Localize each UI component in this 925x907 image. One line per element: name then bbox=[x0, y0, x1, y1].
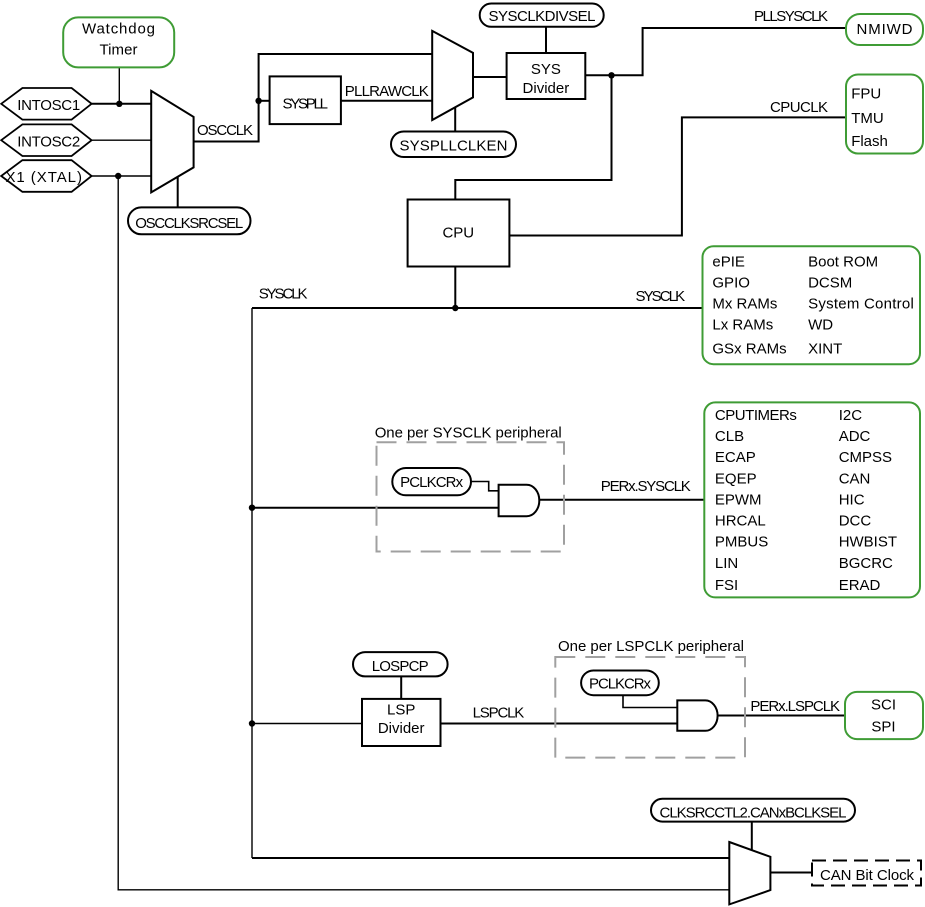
svg-text:CLKSRCCTL2.CANxBCLKSEL: CLKSRCCTL2.CANxBCLKSEL bbox=[660, 804, 847, 821]
svg-text:ePIE: ePIE bbox=[712, 254, 745, 271]
svg-text:OSCCLKSRCSEL: OSCCLKSRCSEL bbox=[135, 215, 243, 232]
svg-text:Mx RAMs: Mx RAMs bbox=[712, 296, 777, 313]
svg-text:CMPSS: CMPSS bbox=[839, 449, 892, 466]
svg-text:SYSPLL: SYSPLL bbox=[282, 96, 328, 113]
svg-text:LIN: LIN bbox=[715, 555, 738, 572]
svg-text:PCLKCRx: PCLKCRx bbox=[589, 676, 652, 693]
svg-text:CPU: CPU bbox=[442, 224, 474, 241]
svg-text:PLLRAWCLK: PLLRAWCLK bbox=[345, 83, 429, 100]
svg-text:CPUCLK: CPUCLK bbox=[770, 99, 828, 116]
svg-text:I2C: I2C bbox=[839, 407, 863, 424]
svg-text:SYSCLK: SYSCLK bbox=[636, 288, 686, 305]
svg-text:DCC: DCC bbox=[839, 513, 872, 530]
svg-text:HRCAL: HRCAL bbox=[715, 513, 766, 530]
svg-text:PMBUS: PMBUS bbox=[715, 534, 768, 551]
svg-text:PERx.SYSCLK: PERx.SYSCLK bbox=[601, 478, 691, 495]
svg-text:LOSPCP: LOSPCP bbox=[372, 658, 429, 675]
svg-text:GSx RAMs: GSx RAMs bbox=[712, 340, 786, 357]
svg-text:Boot ROM: Boot ROM bbox=[808, 254, 878, 271]
svg-text:ERAD: ERAD bbox=[839, 577, 881, 594]
svg-text:FSI: FSI bbox=[715, 577, 738, 594]
svg-text:INTOSC2: INTOSC2 bbox=[17, 133, 80, 150]
svg-text:TMU: TMU bbox=[851, 110, 884, 127]
svg-text:ECAP: ECAP bbox=[715, 449, 756, 466]
svg-text:EQEP: EQEP bbox=[715, 470, 757, 487]
svg-text:HIC: HIC bbox=[839, 491, 865, 508]
svg-text:Watchdog: Watchdog bbox=[82, 21, 155, 38]
svg-text:Divider: Divider bbox=[378, 720, 425, 737]
svg-text:X1 (XTAL): X1 (XTAL) bbox=[5, 169, 81, 186]
svg-text:CLB: CLB bbox=[715, 428, 744, 445]
svg-text:ADC: ADC bbox=[839, 428, 871, 445]
svg-text:DCSM: DCSM bbox=[808, 275, 852, 292]
svg-text:LSP: LSP bbox=[387, 702, 415, 719]
svg-text:One per SYSCLK peripheral: One per SYSCLK peripheral bbox=[375, 425, 562, 442]
svg-text:FPU: FPU bbox=[851, 85, 881, 102]
svg-text:Flash: Flash bbox=[851, 133, 888, 150]
svg-text:SPI: SPI bbox=[871, 719, 895, 736]
svg-text:SYSPLLCLKEN: SYSPLLCLKEN bbox=[400, 138, 508, 155]
svg-text:LSPCLK: LSPCLK bbox=[473, 704, 525, 721]
svg-text:CPUTIMERs: CPUTIMERs bbox=[715, 407, 797, 424]
svg-text:GPIO: GPIO bbox=[712, 275, 750, 292]
svg-text:SYS: SYS bbox=[531, 61, 561, 78]
svg-text:CAN Bit Clock: CAN Bit Clock bbox=[820, 867, 915, 884]
svg-text:PCLKCRx: PCLKCRx bbox=[400, 474, 464, 491]
svg-text:CAN: CAN bbox=[839, 470, 871, 487]
svg-text:SYSCLK: SYSCLK bbox=[259, 286, 308, 303]
svg-text:One per LSPCLK peripheral: One per LSPCLK peripheral bbox=[558, 638, 744, 655]
svg-text:SCI: SCI bbox=[871, 697, 896, 714]
svg-text:EPWM: EPWM bbox=[715, 491, 762, 508]
svg-text:BGCRC: BGCRC bbox=[839, 555, 893, 572]
svg-text:NMIWD: NMIWD bbox=[857, 21, 913, 38]
svg-text:Lx RAMs: Lx RAMs bbox=[712, 317, 773, 334]
svg-text:Divider: Divider bbox=[523, 80, 570, 97]
svg-text:WD: WD bbox=[808, 317, 833, 334]
svg-text:XINT: XINT bbox=[808, 340, 842, 357]
svg-text:PLLSYSCLK: PLLSYSCLK bbox=[754, 8, 828, 25]
svg-text:SYSCLKDIVSEL: SYSCLKDIVSEL bbox=[489, 8, 596, 25]
svg-text:System Control: System Control bbox=[808, 296, 914, 313]
svg-text:INTOSC1: INTOSC1 bbox=[17, 97, 80, 114]
svg-text:HWBIST: HWBIST bbox=[839, 534, 897, 551]
svg-text:Timer: Timer bbox=[100, 42, 138, 59]
svg-text:PERx.LSPCLK: PERx.LSPCLK bbox=[750, 698, 840, 715]
svg-text:OSCCLK: OSCCLK bbox=[197, 122, 253, 139]
